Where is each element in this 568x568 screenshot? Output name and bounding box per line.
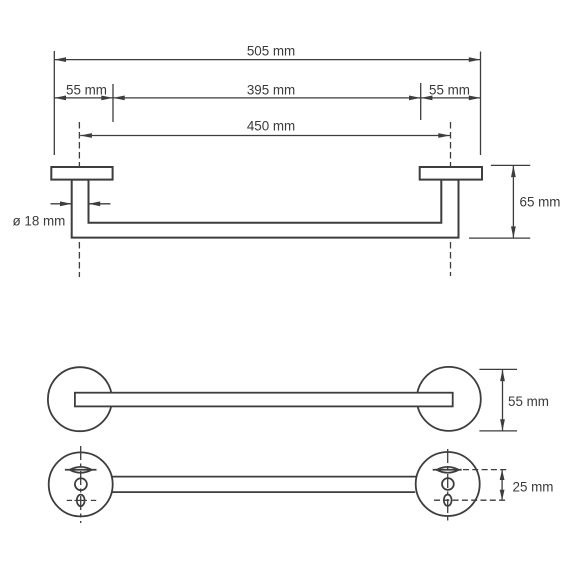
dimension 505 mm (54, 43, 480, 62)
svg-text:25 mm: 25 mm (513, 480, 554, 495)
mount circle left (back view) (49, 452, 113, 516)
crosshair left oval (67, 499, 96, 501)
svg-text:450 mm: 450 mm (247, 119, 295, 134)
keyhole slot left (65, 467, 97, 473)
slot oval left (77, 495, 85, 507)
dimension 25 mm (434, 470, 553, 501)
slot oval right (444, 495, 452, 506)
dimension 65 mm (469, 165, 560, 238)
wall plate left (side view) (51, 167, 112, 180)
mount circle left (front view) (48, 367, 112, 431)
dimension 55 mm (front view) (479, 369, 549, 431)
centerline right mount (back view) (447, 449, 449, 523)
extension line right (505 mm) (480, 52, 482, 156)
dimension 395 mm (113, 83, 421, 101)
towel bar profile (side view) (72, 180, 459, 238)
svg-text:65 mm: 65 mm (520, 195, 561, 210)
mount circle right (back view) (416, 452, 480, 516)
dimension 55 mm right (421, 83, 481, 101)
svg-text:ø 18 mm: ø 18 mm (13, 213, 66, 228)
wall plate right (side view) (420, 167, 482, 180)
dimension 55 mm left (54, 83, 113, 101)
centerline left (side view) (78, 122, 80, 277)
bar (back view) (112, 477, 416, 493)
centerline right (side view) (450, 122, 452, 276)
extension line left (505 mm) (53, 51, 55, 155)
bar (front view) (75, 393, 453, 407)
tick right (395/55 boundary) (420, 83, 422, 120)
svg-text:505 mm: 505 mm (247, 43, 295, 58)
tick left (55/395 boundary) (112, 84, 114, 122)
screw hole right (442, 478, 454, 490)
keyhole slot right (433, 467, 462, 473)
svg-text:55 mm: 55 mm (66, 83, 107, 98)
svg-text:395 mm: 395 mm (247, 83, 295, 98)
centerline left mount (back view) (80, 446, 82, 523)
svg-text:55 mm: 55 mm (429, 83, 470, 98)
screw hole left (75, 478, 87, 490)
dimension 450 mm (80, 119, 450, 138)
mount circle right (front view) (417, 367, 481, 431)
dimension ø 18 mm (13, 201, 111, 228)
svg-text:55 mm: 55 mm (508, 394, 549, 409)
